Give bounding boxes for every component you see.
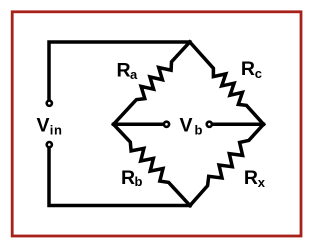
svg-text:R: R bbox=[241, 58, 255, 80]
svg-text:a: a bbox=[130, 67, 138, 82]
svg-text:in: in bbox=[50, 122, 63, 137]
svg-text:V: V bbox=[180, 114, 193, 136]
svg-text:R: R bbox=[244, 167, 258, 189]
svg-text:V: V bbox=[37, 114, 50, 136]
svg-text:x: x bbox=[258, 175, 266, 190]
svg-text:R: R bbox=[121, 167, 135, 189]
svg-text:R: R bbox=[117, 60, 131, 82]
svg-text:b: b bbox=[195, 123, 203, 138]
svg-text:b: b bbox=[135, 174, 143, 189]
svg-text:c: c bbox=[255, 66, 262, 81]
